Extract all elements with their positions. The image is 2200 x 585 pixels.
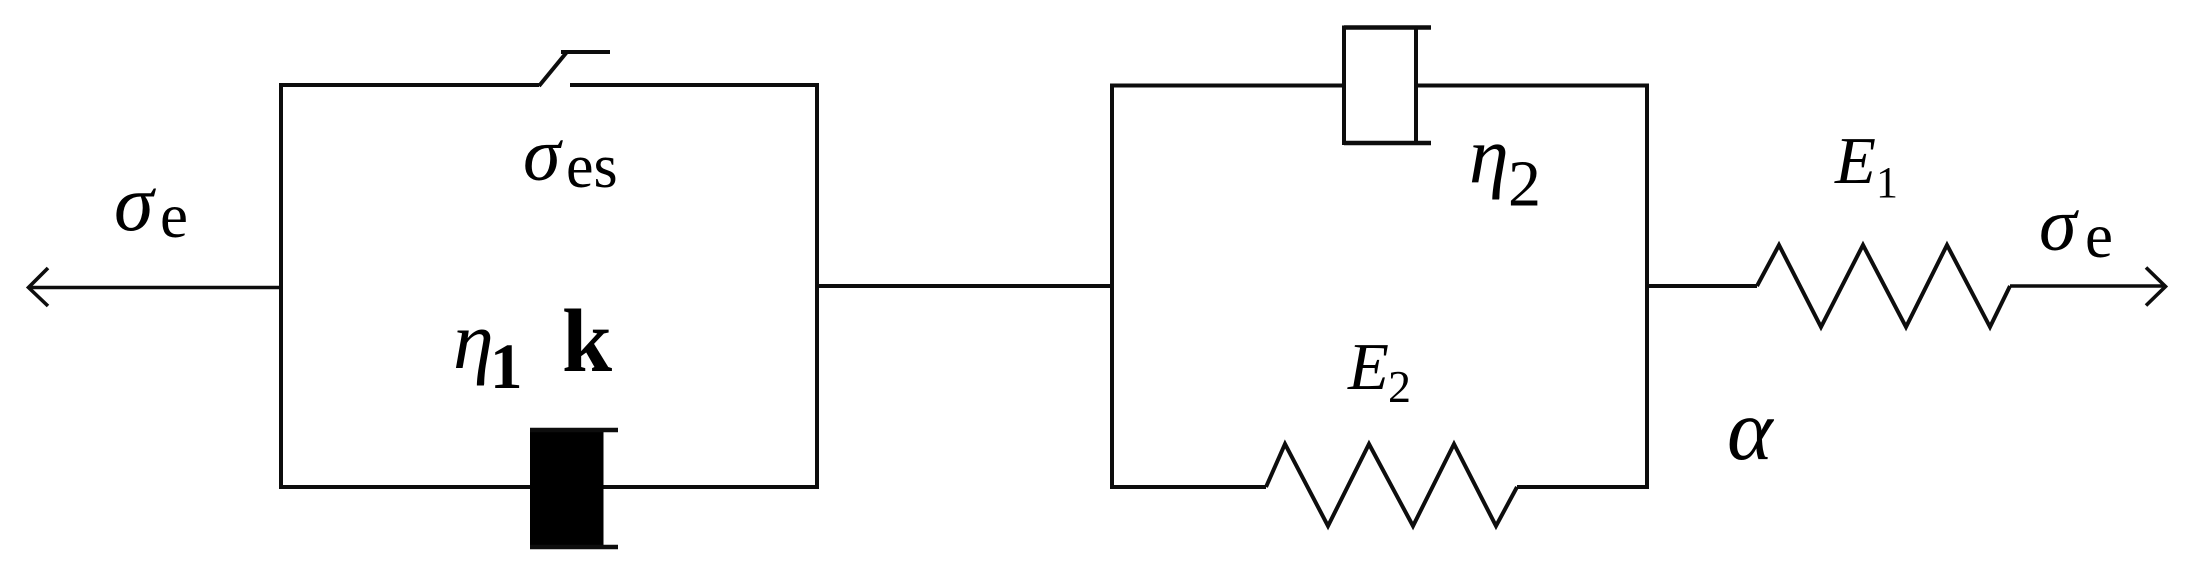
label sigma_e (right) bbox=[2039, 183, 2113, 271]
label eta_2 (dashpot) bbox=[1469, 113, 1541, 221]
label sigma_es (switch branch) bbox=[523, 113, 618, 201]
svg-text:σ: σ bbox=[523, 113, 563, 197]
arrow left (sigma_e pull) bbox=[29, 268, 282, 306]
svg-text:α: α bbox=[1727, 381, 1775, 478]
svg-text:e: e bbox=[2085, 201, 2113, 271]
label eta_1 (lower branch viscosity) bbox=[453, 295, 523, 403]
box B1 (left parallel-branch frame) bbox=[281, 85, 817, 487]
label E_1 (series spring modulus) bbox=[1834, 124, 1898, 207]
svg-text:σ: σ bbox=[2039, 183, 2079, 267]
label E_2 (parallel spring modulus) bbox=[1347, 330, 1411, 412]
svg-text:1: 1 bbox=[490, 331, 523, 403]
svg-text:E: E bbox=[1347, 330, 1389, 404]
svg-text:η: η bbox=[453, 295, 494, 386]
svg-text:k: k bbox=[562, 292, 612, 391]
svg-text:e: e bbox=[160, 181, 188, 251]
spring E1 (series zigzag) bbox=[1757, 245, 2010, 327]
switch S (breakable bond branch) bbox=[539, 52, 610, 86]
label sigma_e (left) bbox=[114, 160, 188, 251]
svg-text:2: 2 bbox=[1508, 148, 1541, 221]
svg-text:2: 2 bbox=[1388, 361, 1411, 412]
arrow right (sigma_e pull) bbox=[2010, 268, 2166, 306]
svg-text:es: es bbox=[566, 133, 618, 201]
friction slider element k (filled block on lower branch) bbox=[530, 428, 618, 549]
dashpot eta_2 (open cylinder block on upper branch) bbox=[1344, 28, 1431, 144]
wire (box B2 to spring E1) bbox=[1647, 284, 1757, 288]
spring E2 (zigzag on lower branch of box B2) bbox=[1266, 444, 1517, 526]
svg-text:1: 1 bbox=[1876, 158, 1898, 207]
wire (series connector between boxes) bbox=[817, 284, 1112, 288]
svg-text:E: E bbox=[1834, 124, 1876, 198]
svg-text:σ: σ bbox=[114, 160, 156, 248]
svg-text:η: η bbox=[1469, 113, 1509, 201]
box B2 (right parallel-branch frame: dashpot over spring) bbox=[1112, 86, 1647, 488]
